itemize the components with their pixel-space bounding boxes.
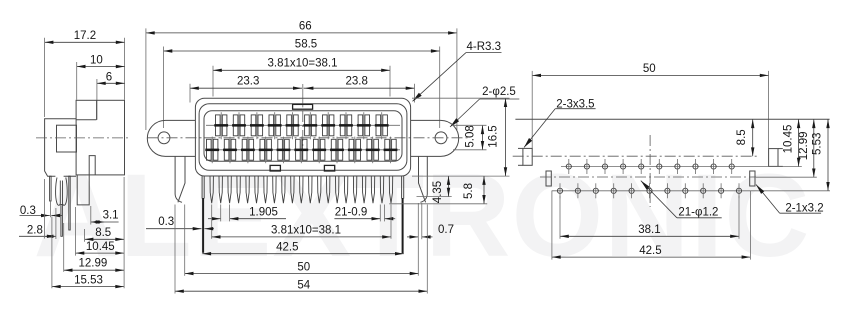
left view flange plate [76,100,124,175]
front view pin 7 [264,176,267,203]
front view bottom row contact 2 [223,137,237,164]
svg-text:17.2: 17.2 [74,30,96,42]
svg-text:0.7: 0.7 [438,224,454,236]
front view bottom row contact 3 [241,137,255,164]
bottom view lower row hole 6 [647,183,652,198]
front view dim 54 [175,279,427,293]
front view dim 66 [146,20,457,34]
svg-text:23.8: 23.8 [346,76,368,88]
front view dim 5.8 extension line [389,203,487,205]
bottom view upper row hole 6 [657,159,662,174]
front view housing outline [195,98,410,176]
bottom view dim 8.5 [736,119,754,156]
bottom view upper row hole 5 [639,159,644,174]
bottom view dim 42.5 [552,245,751,259]
bottom view lower hole row line [552,190,830,192]
left view middle pin tail [61,205,63,237]
left view dim 10.45 [76,241,125,255]
left view shroud body [45,119,77,176]
front view dim 21-0.9 [334,207,395,221]
bottom view slot centerline [513,155,757,157]
left view flange inner edge [76,100,97,120]
left view dim 15.53 extension line [51,217,53,289]
front view top row contact 9 [357,112,371,139]
front view pin 14 [327,176,330,203]
front view top row contact 1 [214,112,228,139]
bottom view lower row hole 7 [665,183,670,198]
svg-text:5.8: 5.8 [463,183,475,199]
left view pin 1 [50,176,52,217]
front view dim 23.8 [304,76,415,90]
front view dim 3.81x10=38.1 bottom [212,224,391,238]
bottom view dim 12.99 [798,119,816,177]
front view pin 11 [300,176,303,203]
svg-text:66: 66 [299,20,312,32]
left view dim 10 [77,54,125,68]
bottom view dim 42.5 extension lines [552,191,751,260]
front view shroud outer outline [199,104,407,171]
front view dim 16.5 extension lines [412,98,510,176]
svg-text:5.08: 5.08 [464,125,476,147]
svg-text:3.81x10=38.1: 3.81x10=38.1 [267,58,337,70]
front view left wing latch [175,156,185,202]
bottom view dim 50 [532,63,768,77]
left view dim 3.1 extension line [90,206,92,225]
front view bottom row contact 7 [312,137,326,164]
svg-text:2-φ2.5: 2-φ2.5 [482,86,516,98]
left view dim 10 extension line [76,62,78,100]
bottom view dim 38.1 extension lines [560,196,739,239]
svg-text:2.8: 2.8 [27,225,43,237]
front view label 2-phi2.5 [450,86,519,127]
front view pin 5 [246,176,249,203]
front view pin 12 [309,176,312,203]
front view pin 4 [237,176,240,203]
left view dim 2.8 [19,225,56,239]
bottom view lower row hole 2 [575,183,580,198]
front view pin 13 [318,176,321,203]
bottom view vertical centerline [649,135,651,207]
front view vertical centerline [302,111,304,163]
front view top row contact 6 [303,112,317,139]
front view bottom row contact 9 [348,137,362,164]
bottom view lower row hole 5 [629,183,634,198]
front view pin 20 [380,176,383,203]
bottom view upper row hole 8 [693,159,698,174]
svg-text:8.5: 8.5 [736,129,748,145]
bottom view lower row hole 3 [593,183,598,198]
front view bottom row contact 4 [259,137,273,164]
left view dim 15.53 [52,275,124,289]
svg-text:12.99: 12.99 [798,132,810,161]
bottom view right 3x3.5 slot [769,149,783,167]
front view dim 1.905 extension lines [212,205,230,239]
svg-text:0.3: 0.3 [20,205,36,217]
front view dim 5.8 [463,176,486,204]
bottom view upper row hole 10 [729,159,734,174]
front view bottom tab left [270,165,280,171]
svg-text:10.45: 10.45 [783,125,795,154]
front view right mounting ear [411,120,459,156]
front view right board leg [402,176,404,253]
bottom view left 3x3.5 slot [518,148,532,165]
front view pin 16 [344,176,347,203]
bottom view upper row hole 1 [566,159,571,174]
left view mating opening square [57,125,77,152]
bottom view lower row hole 9 [701,183,706,198]
front view right wing latch [419,156,428,202]
front view dim 54 extension lines [175,205,427,294]
svg-text:8.5: 8.5 [95,227,111,239]
front view dim 1.905 [208,207,286,221]
front view pin 2 [219,176,222,203]
bottom view lower row hole 1 [557,183,562,198]
bottom view label 21-phi1.2 [641,181,722,219]
svg-text:4.35: 4.35 [432,181,444,203]
front view top row contact 5 [286,112,300,139]
front view bottom row contact 10 [366,137,380,164]
bottom view right 1x3.2 slot [750,171,755,186]
front view bottom contact row line [206,149,400,151]
svg-text:2-1x3.2: 2-1x3.2 [785,202,823,214]
front view top row contact 4 [268,112,282,139]
front view pin 18 [362,176,365,203]
left view dim 12.99 [64,258,124,272]
front view bottom row contact 11 [384,137,398,164]
svg-text:42.5: 42.5 [639,245,661,257]
left view shroud face extension line [44,179,46,239]
left view centerline [36,137,131,139]
svg-text:50: 50 [643,63,656,75]
left view right extension line [123,177,125,288]
bottom view lower row hole 8 [683,183,688,198]
front view pin 17 [353,176,356,203]
front view top row contact 2 [232,112,246,139]
front view pin 6 [255,176,258,203]
bottom view upper row hole 7 [675,159,680,174]
svg-text:21-0.9: 21-0.9 [335,207,368,219]
front view dim 3.81x10=38.1 top [213,58,390,73]
svg-text:10: 10 [90,54,103,66]
front view left mounting ear [147,120,195,156]
svg-text:4-R3.3: 4-R3.3 [467,41,502,53]
bottom view upper row hole 4 [621,159,626,174]
svg-text:10.45: 10.45 [86,241,115,253]
svg-text:38.1: 38.1 [638,224,660,236]
front view pin 1 [210,176,213,203]
front view top row contact 8 [339,112,353,139]
svg-text:6: 6 [106,71,112,83]
svg-text:23.3: 23.3 [237,76,259,88]
front view top row contact 7 [321,112,335,139]
bottom view upper hole row line [561,166,802,168]
bottom view upper row hole 2 [584,159,589,174]
bottom view upper row hole 9 [711,159,716,174]
front view pin 19 [371,176,374,203]
left view dim 8.5 extension line [84,229,86,242]
front view dim 0.7 [407,224,454,239]
front view right ear hole [435,132,447,144]
svg-text:54: 54 [297,279,310,291]
bottom view lower slot centerline [540,176,756,178]
left view dim 17.2 [45,30,125,44]
front view dim 58.5 [164,38,440,52]
front view dim 0.7 extension lines [418,203,422,276]
front view bottom tab right [324,165,334,171]
left view dim 2.8 extension line [55,208,57,239]
front view left ear hole [158,132,170,144]
bottom view upper row hole 3 [602,159,607,174]
bottom view dim 10.45 [783,119,801,166]
front view bottom row contact 5 [277,137,291,164]
left view mounting leg [77,156,95,205]
front view shroud inner outline [204,111,402,162]
svg-text:12.99: 12.99 [79,258,108,270]
front view pin 9 [282,176,285,203]
bottom view lower row hole 10 [719,183,724,198]
bottom view dim 5.53 [812,119,830,191]
left view dim 17.2 extension lines [45,38,125,117]
front view horizontal centerline [148,137,471,139]
svg-text:1.905: 1.905 [249,207,278,219]
bottom view lower row hole 11 [736,183,741,198]
svg-text:5.53: 5.53 [812,133,824,155]
front view top row contact 3 [250,112,264,139]
front view dim 4.35 [432,176,450,203]
front view dim 0.3 [146,216,214,231]
svg-text:42.5: 42.5 [276,242,298,254]
left view dim 8.5 [85,227,125,241]
left view dim 3.1 [91,210,119,224]
left view dim 10.45 extension line [75,207,77,256]
bottom view label 2-1x3.2 [756,185,824,215]
left view rear pin [69,176,70,230]
front view dim 4.35 extension line [417,196,452,198]
front view dim 38.1 top extension lines [213,66,390,97]
front view top latch tab [293,104,313,109]
bottom view lower row hole 4 [611,183,616,198]
left view dim 6 extension line [96,79,98,120]
left view bent loop pin [56,178,68,206]
front view pin 8 [273,176,276,203]
front view pin 3 [228,176,231,203]
bottom view left 1x3.2 slot [546,171,551,186]
bottom view label 2-3x3.5 [524,99,596,148]
front view center tick [302,84,304,107]
front view bottom row contact 1 [205,137,219,164]
bottom view dim 38.1 [560,224,739,238]
front view bottom row contact 6 [294,137,308,164]
bottom view dim 12.99 extension line [756,176,817,178]
svg-text:58.5: 58.5 [295,38,317,50]
svg-text:15.53: 15.53 [74,275,103,287]
svg-text:21-φ1.2: 21-φ1.2 [678,207,718,219]
front view dim 16.5 [488,98,508,176]
front view top row contact 10 [375,112,389,139]
front view dim 50 extension line [184,205,186,276]
front view label 4-R3.3 [413,41,502,101]
front view dim 66 extension lines [146,28,457,130]
front view dim 5.08 [464,125,484,150]
left view dim 0.3 [20,205,63,217]
front view left board leg [202,176,204,253]
svg-text:3.81x10=38.1: 3.81x10=38.1 [271,224,341,236]
svg-text:3.1: 3.1 [103,210,119,222]
left view dim 12.99 extension line [63,223,65,272]
front view pin 10 [291,176,294,203]
front view dim 42.5 [202,242,403,256]
svg-text:50: 50 [297,262,310,274]
svg-text:16.5: 16.5 [488,125,500,147]
front view dim 23.3 23.8 extension lines [190,84,415,103]
bottom view top edge line [515,118,829,120]
svg-text:0.3: 0.3 [158,216,174,228]
front view pin 15 [336,176,339,203]
front view dim 50 [185,262,419,276]
left view dim 6 [97,71,125,85]
bottom view dim 50 extension lines [532,71,768,149]
front view bottom row contact 8 [330,137,344,164]
front view pin 21 [389,176,392,203]
front view dim 58.5 extension lines [164,47,440,129]
front view dim 23.3 [190,76,302,90]
front view top contact row line [206,124,400,126]
front view dim 21-0.9 extension lines [380,205,391,239]
front view dim 5.08 extension lines [453,125,487,150]
